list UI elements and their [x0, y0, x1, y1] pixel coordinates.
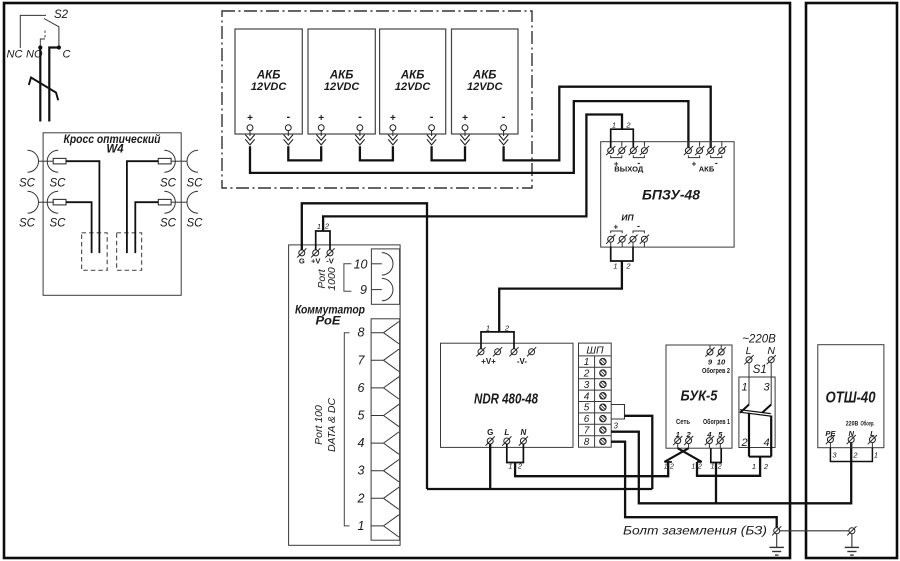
svg-text:2: 2 [625, 120, 631, 129]
wire from S2 C contact [49, 48, 59, 122]
svg-text:C: C [63, 49, 71, 61]
svg-text:4: 4 [584, 391, 590, 402]
fiber from right SC row2 to tray2 [135, 202, 158, 253]
PoE switch box Коммутатор РоЕ [289, 245, 401, 545]
svg-text:SC: SC [160, 178, 177, 190]
svg-text:2: 2 [517, 462, 523, 471]
svg-text:SC: SC [19, 178, 36, 190]
svg-text:2: 2 [741, 437, 748, 449]
svg-text:7: 7 [584, 426, 590, 437]
power supply NDR 480-48 [441, 343, 574, 447]
svg-text:Обогрев 2: Обогрев 2 [702, 367, 730, 375]
svg-text:N: N [521, 428, 527, 437]
wire БПЗУ ВЫХОД to PoE switch +V/-V [323, 115, 622, 232]
switch S2 [7, 9, 71, 61]
wire ШП 8 to ground bolt [611, 442, 777, 528]
svg-text:SC: SC [50, 178, 67, 190]
svg-text:9: 9 [360, 283, 367, 297]
svg-text:N: N [767, 345, 775, 357]
svg-text:2: 2 [357, 491, 365, 505]
wire GB1+ to BPZU AKB+ terminal [250, 101, 688, 173]
svg-text:12VDC: 12VDC [251, 81, 288, 93]
PoE Port 100 block [371, 319, 400, 540]
SC connector pair, right row 2 [158, 191, 198, 213]
cable bracket Обогрев 1 pins 1,2 [711, 448, 722, 470]
svg-text:Обогр.: Обогр. [861, 419, 875, 427]
svg-text:+: + [462, 113, 468, 124]
terminal strip ШП [579, 343, 612, 448]
svg-text:SC: SC [187, 178, 204, 190]
SC connector pair, right row 1 [158, 150, 198, 172]
svg-text:NDR 480-48: NDR 480-48 [474, 392, 539, 408]
svg-text:12VDC: 12VDC [467, 81, 504, 93]
controller БУК-5 [666, 345, 732, 448]
svg-text:1: 1 [742, 382, 748, 394]
fiber from left SC row2 to tray1 [66, 202, 92, 253]
svg-text:G: G [487, 428, 493, 437]
cable bracket below S1 pins 1,2 [749, 457, 771, 471]
ground bolt terminal БЗ [772, 526, 781, 535]
svg-text:ИП: ИП [621, 212, 634, 222]
NDR +V+ / -V- terminals [476, 347, 536, 366]
svg-text:БПЗУ-48: БПЗУ-48 [642, 186, 700, 202]
svg-text:7: 7 [358, 353, 366, 367]
bonding link between ground bolts [780, 530, 849, 532]
svg-text:NC: NC [7, 49, 23, 61]
heater ОТШ-40 [818, 345, 884, 448]
svg-text:1: 1 [711, 464, 715, 471]
cable bracket ОТШ-40 pins 3,2,1 [830, 448, 878, 462]
svg-text:3: 3 [584, 380, 590, 391]
svg-text:SC: SC [50, 218, 67, 230]
svg-text:+V: +V [311, 256, 321, 265]
svg-text:10: 10 [354, 258, 368, 272]
svg-text:W4: W4 [106, 144, 124, 156]
svg-text:+: + [247, 113, 253, 124]
svg-text:S2: S2 [54, 9, 69, 21]
power supply unit БПЗУ-48 [601, 142, 734, 247]
svg-text:АКБ: АКБ [699, 165, 715, 174]
battery GB1 АКБ 12VDC [235, 29, 302, 145]
svg-text:3: 3 [358, 464, 365, 478]
svg-text:ШП: ШП [586, 345, 604, 357]
battery GB4 АКБ 12VDC [452, 29, 519, 145]
svg-text:-: - [715, 158, 718, 168]
Port 100 bracket [344, 333, 349, 526]
БПЗУ АКБ terminals [684, 142, 727, 174]
wire ШП 7 to Обогрев 1 / ОТШ-40 [611, 432, 851, 504]
svg-text:220В: 220В [846, 420, 859, 427]
cable bracket above PoE +V,-V pins 1,2 [316, 222, 330, 250]
wire GB4- to BPZU AKB- terminal [504, 87, 711, 161]
svg-text:1: 1 [358, 519, 365, 533]
БПЗУ ИП terminals [606, 212, 649, 247]
svg-text:-: - [502, 111, 506, 123]
svg-text:+V+: +V+ [481, 357, 496, 366]
splice tray 2 (dashed) [117, 233, 142, 270]
svg-text:2: 2 [504, 324, 510, 333]
svg-text:SC: SC [160, 218, 177, 230]
cable bracket above NDR +V/-V pins 1,2 [481, 324, 514, 349]
svg-text:Сеть: Сеть [676, 419, 691, 426]
svg-text:2: 2 [625, 262, 631, 271]
SC connector pair, left row 1 [28, 150, 67, 172]
svg-text:1: 1 [613, 262, 617, 271]
svg-text:Port 100: Port 100 [313, 405, 325, 445]
svg-text:2: 2 [669, 464, 674, 471]
ОТШ-40 terminals PE,N,L [825, 419, 877, 447]
svg-text:АКБ: АКБ [329, 70, 354, 82]
svg-text:SC: SC [19, 218, 36, 230]
svg-text:4: 4 [764, 437, 770, 449]
wire NDR L/N to БУК-5 Сеть (crossed pair) [515, 462, 668, 476]
battery GB2 АКБ 12VDC [308, 29, 375, 145]
ground bus wire [427, 488, 652, 490]
svg-text:6: 6 [358, 381, 365, 395]
earth symbol right cabinet [845, 534, 859, 555]
wire from S2 NO contact [39, 48, 41, 122]
svg-text:+: + [613, 223, 618, 232]
svg-text:АКБ: АКБ [472, 70, 497, 82]
wire GB2- to GB3+ [360, 146, 393, 160]
svg-text:3: 3 [764, 382, 771, 394]
svg-text:2: 2 [324, 222, 330, 231]
wire БПЗУ ИП to NDR +V/-V output [499, 261, 622, 332]
wire GB1- to GB2+ [288, 146, 321, 160]
svg-text:-: - [637, 221, 640, 231]
svg-text:S1: S1 [753, 364, 767, 376]
cable bracket above БПЗУ ВЫХОД pins 1,2 [611, 120, 634, 147]
svg-text:2: 2 [583, 369, 590, 380]
Port 1000 bracket [344, 264, 352, 291]
jumper ШП 5-6 [611, 405, 624, 420]
svg-text:Обогрев 1: Обогрев 1 [703, 418, 730, 426]
svg-text:1: 1 [874, 451, 878, 460]
wire ШП 5/6 to ground bus [625, 416, 653, 489]
svg-text:6: 6 [584, 414, 590, 425]
svg-text:+: + [318, 113, 324, 124]
ground bolt terminal (right cabinet) [847, 526, 856, 535]
cable bracket Сеть right pins 1,2 [691, 462, 702, 471]
svg-text:2: 2 [717, 464, 722, 471]
cable bracket Сеть left pins 1,2 [664, 462, 674, 471]
svg-text:РоЕ: РоЕ [316, 314, 342, 328]
svg-text:4: 4 [358, 436, 365, 450]
wire Обогрев 1 stem [715, 463, 717, 504]
fiber from right SC row1 to tray2 [127, 161, 158, 253]
wire GB3- to GB4+ [432, 146, 465, 160]
wire NDR G to ground bus [489, 444, 491, 489]
svg-text:Болт заземления (БЗ): Болт заземления (БЗ) [623, 526, 767, 538]
fiber from left SC row1 to tray1 [66, 161, 99, 253]
svg-text:АКБ: АКБ [256, 70, 281, 82]
БУК-5 Сеть terminals 1,2 [673, 419, 693, 448]
svg-text:L: L [746, 345, 752, 357]
svg-text:2: 2 [852, 451, 858, 460]
wire PoE G to ground bus [302, 203, 427, 489]
svg-text:SC: SC [187, 218, 204, 230]
svg-text:1: 1 [486, 324, 490, 333]
NDR G,L,N input terminals [486, 428, 528, 446]
svg-text:8: 8 [584, 437, 590, 448]
svg-text:-V: -V [326, 256, 335, 265]
earth symbol at БЗ [770, 534, 784, 555]
svg-text:1: 1 [612, 121, 616, 130]
svg-text:~220В: ~220В [742, 334, 776, 346]
svg-text:БУК-5: БУК-5 [681, 389, 719, 405]
svg-text:10: 10 [717, 358, 726, 367]
svg-text:5: 5 [584, 403, 590, 414]
svg-text:+: + [692, 160, 697, 169]
cable marker on S2 wires [29, 78, 58, 101]
svg-text:+: + [390, 113, 396, 124]
svg-text:G: G [299, 256, 305, 265]
svg-text:8: 8 [358, 326, 365, 340]
battery GB3 АКБ 12VDC [380, 29, 446, 145]
svg-text:-: - [286, 111, 290, 123]
svg-text:1: 1 [317, 222, 321, 231]
svg-text:1: 1 [508, 462, 512, 471]
svg-text:1000: 1000 [326, 267, 338, 291]
БПЗУ ВЫХОД terminals 1-4 [606, 142, 649, 174]
cable bracket below NDR L,N pins 1,2 [507, 444, 524, 471]
svg-text:АКБ: АКБ [400, 70, 425, 82]
svg-text:ОТШ-40: ОТШ-40 [826, 390, 876, 407]
svg-text:DATA & DC: DATA & DC [326, 398, 338, 452]
SC connector pair, left row 2 [28, 191, 67, 213]
svg-text:1: 1 [691, 464, 695, 471]
svg-text:2: 2 [763, 462, 769, 471]
svg-text:12VDC: 12VDC [324, 81, 361, 93]
svg-text:-: - [430, 111, 434, 123]
Port 100 port numbers 8..1 [357, 326, 366, 533]
svg-text:3: 3 [614, 422, 619, 431]
wire S1 output to БУК-5 Сеть (crossed pair) [697, 457, 760, 476]
БУК-5 Обогрев 2 terminals 9,10 [702, 345, 730, 375]
svg-text:1: 1 [584, 357, 590, 368]
svg-text:1: 1 [752, 462, 756, 471]
svg-text:5: 5 [358, 409, 365, 423]
БУК-5 Обогрев 1 terminals 4,5 [703, 418, 730, 448]
PoE Port 1000 block [371, 249, 399, 304]
PoE G,+V,-V terminals [297, 248, 335, 265]
svg-text:1: 1 [664, 464, 668, 471]
svg-text:-V-: -V- [517, 357, 528, 366]
circuit breaker S1, ~220V input [739, 334, 776, 457]
svg-text:12VDC: 12VDC [395, 81, 432, 93]
svg-text:ВЫХОД: ВЫХОД [614, 165, 644, 174]
battery enclosure (dash-dot) [222, 11, 532, 188]
svg-text:L: L [504, 428, 509, 437]
outdoor cabinet frame (right enclosure) [806, 3, 897, 558]
optical cross W4 box [43, 133, 181, 295]
svg-text:-: - [358, 111, 362, 123]
crossed wires under Сеть terminals [664, 448, 701, 462]
cable bracket below БПЗУ ИП pins 1,2 [611, 247, 633, 271]
splice tray 1 (dashed) [82, 233, 108, 270]
